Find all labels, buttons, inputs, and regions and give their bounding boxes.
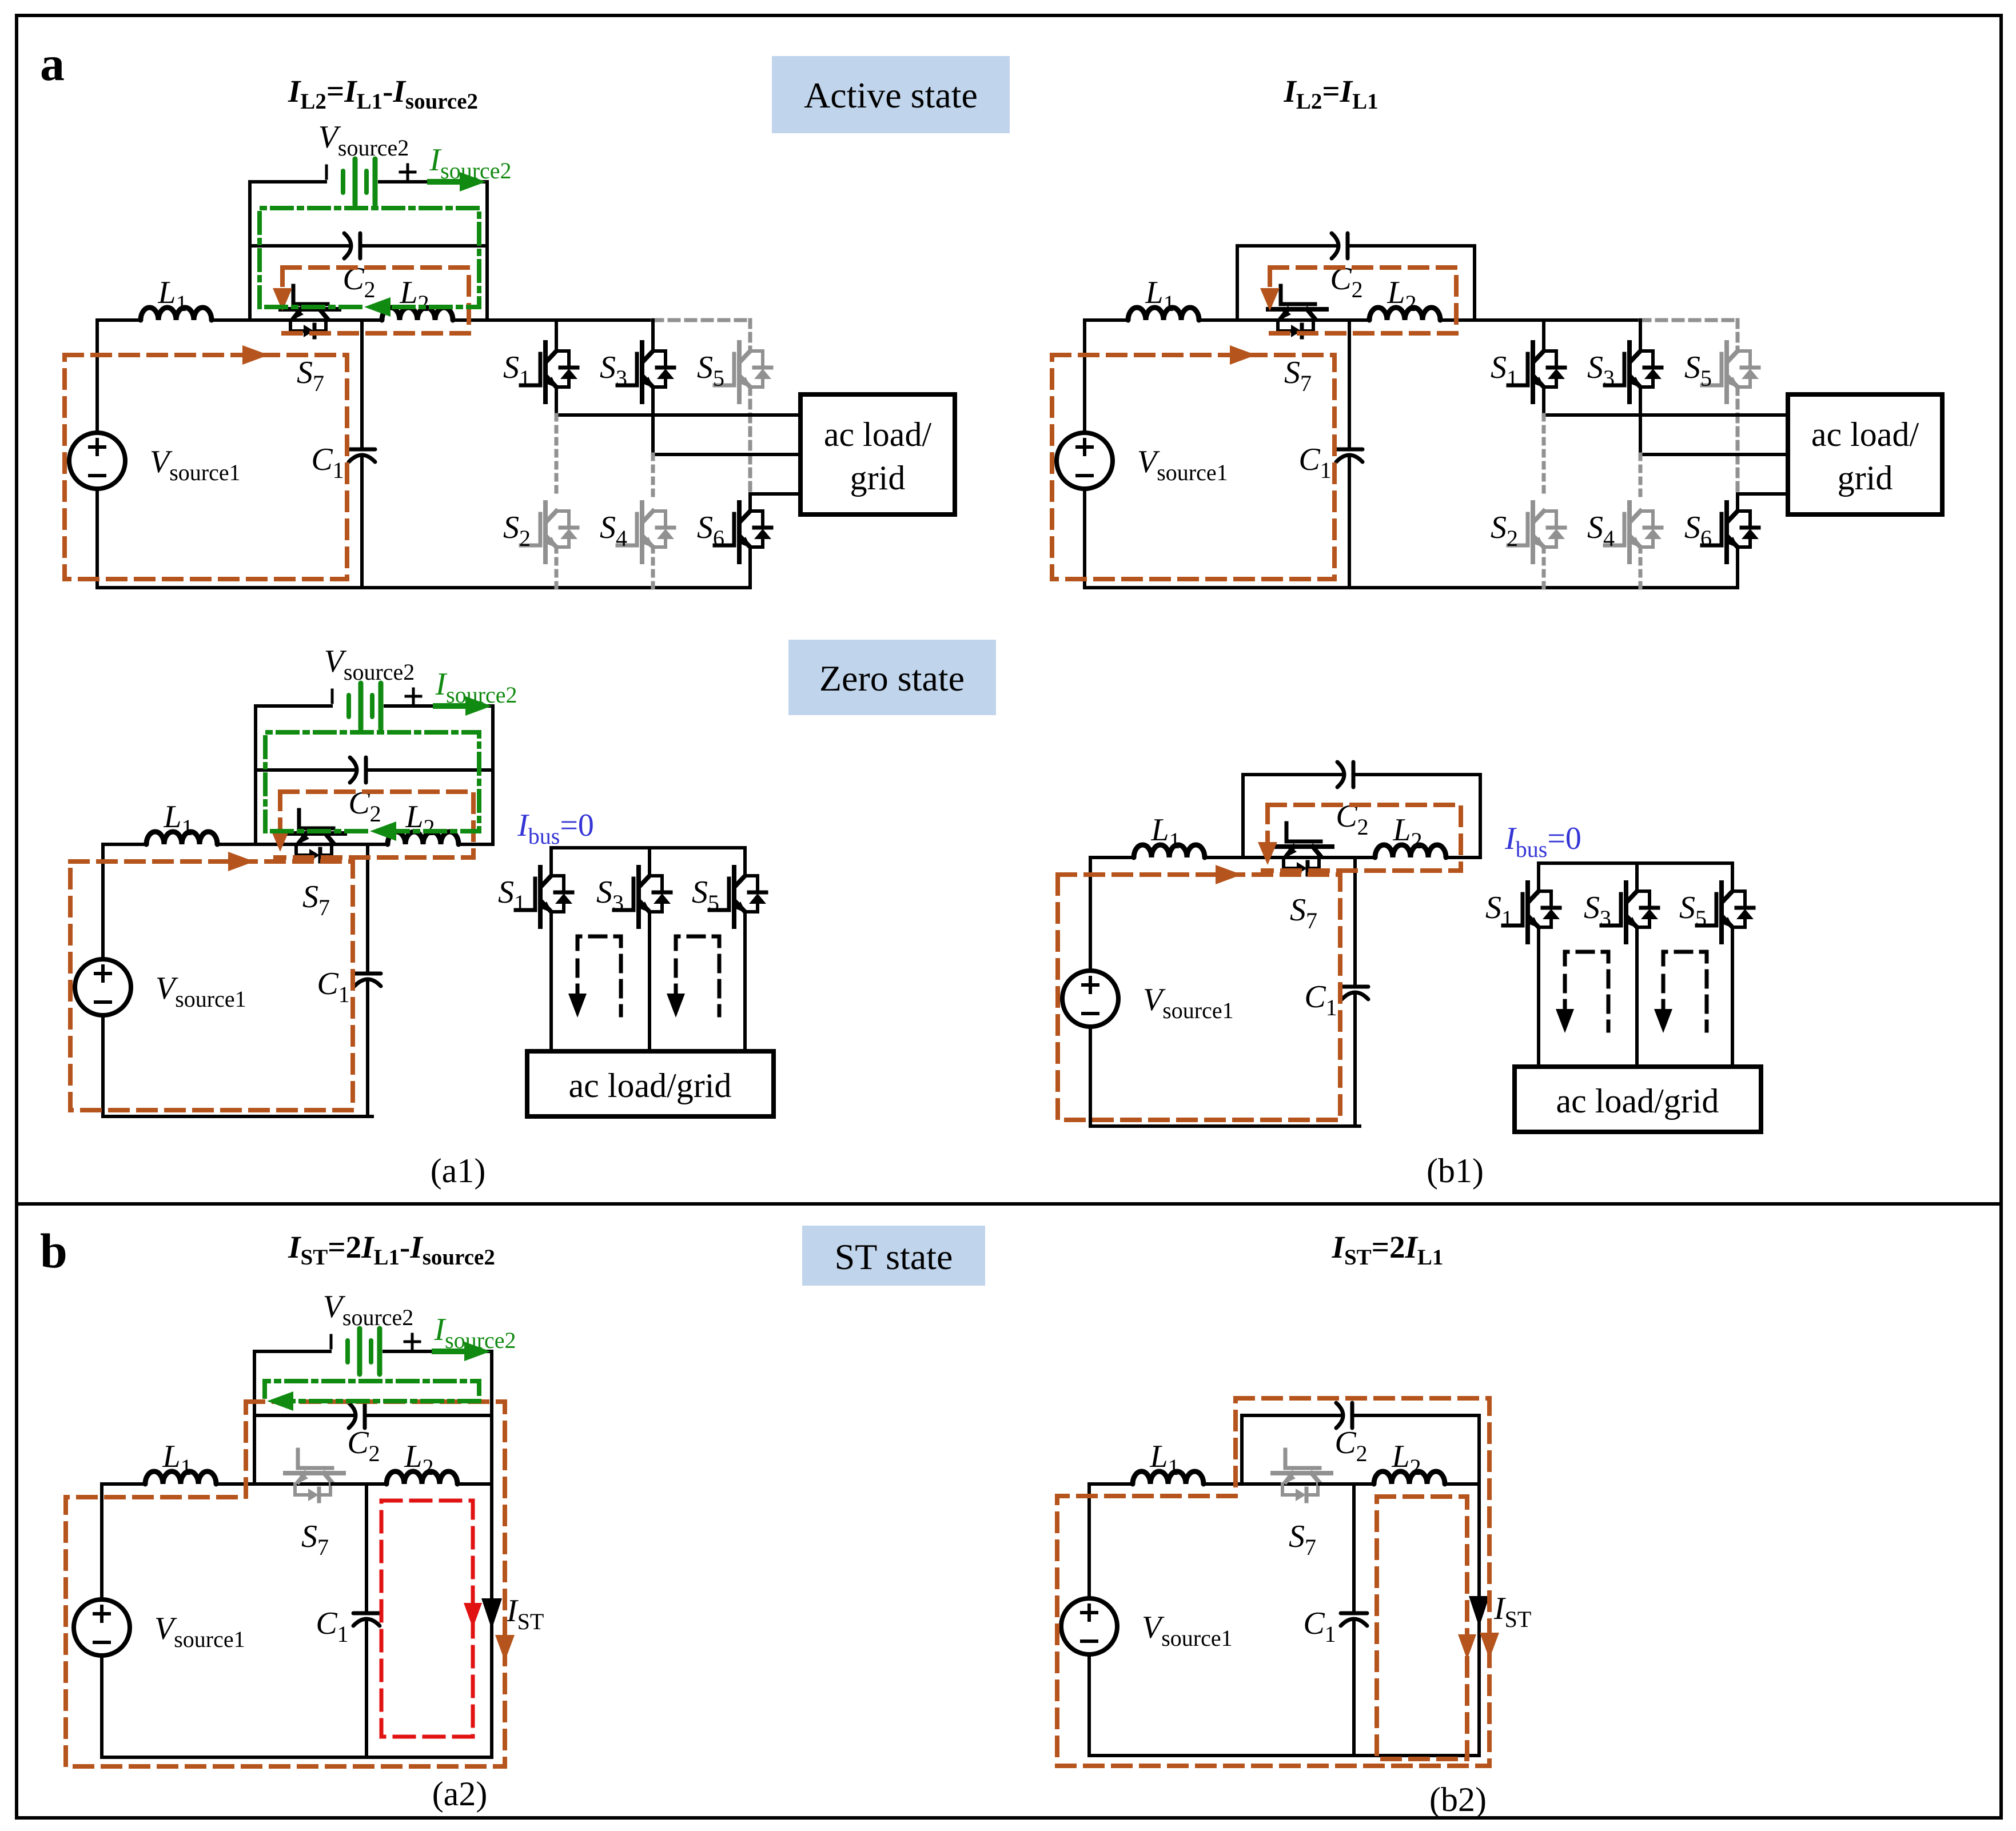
wire: right rail down to bottom xyxy=(490,1484,493,1757)
switch S4 emitter leg (grey dotted) xyxy=(1639,547,1643,588)
switch S5 collector leg (grey dashed) xyxy=(1736,320,1740,351)
inductor L2 xyxy=(382,308,453,320)
switch S4 emitter leg (grey dotted) xyxy=(651,547,655,588)
switch S5 emitter leg xyxy=(743,912,747,1051)
wire: C2 line right part xyxy=(1354,1414,1479,1417)
wire: top rail from source to L1 xyxy=(1090,856,1134,859)
wire: left rail lower xyxy=(1083,489,1086,588)
brown loop arrow xyxy=(228,852,254,871)
switch S4 collector leg (grey dotted) xyxy=(651,454,655,495)
switch S5 collector leg xyxy=(1731,863,1734,891)
wire: battery top right xyxy=(385,704,493,708)
inductor L1 xyxy=(1128,308,1199,320)
IGBT S4 (grey) xyxy=(1605,502,1662,562)
capacitor C1 xyxy=(354,972,381,976)
svg-text:L2: L2 xyxy=(1391,1439,1421,1480)
svg-text:Active state: Active state xyxy=(804,75,978,115)
IGBT S4 (grey) xyxy=(617,502,674,562)
svg-text:Vsource1: Vsource1 xyxy=(1137,444,1228,485)
brown loop down arrow (outer) xyxy=(1480,1633,1499,1659)
ac load/grid box xyxy=(527,1051,774,1116)
svg-text:Vsource1: Vsource1 xyxy=(156,971,246,1012)
svg-text:S5: S5 xyxy=(697,350,724,391)
wire: battery top right xyxy=(384,1350,492,1353)
brown loop (V_source1 charge path) xyxy=(65,355,347,579)
wire: S7 to C1 node and L2 xyxy=(333,843,388,846)
svg-text:S3: S3 xyxy=(596,875,624,916)
svg-text:L1: L1 xyxy=(1149,1439,1179,1480)
capacitor C2 branch: left vertical xyxy=(1241,775,1245,857)
wire: C2 line right part xyxy=(1356,773,1480,776)
transistor S7 xyxy=(1273,1450,1331,1501)
switch S1 collector leg xyxy=(555,320,558,351)
capacitor C1 branch upper wire xyxy=(1352,1484,1356,1611)
switch S6 collector leg xyxy=(1736,494,1739,511)
IGBT S3 xyxy=(617,342,674,402)
svg-text:C1: C1 xyxy=(317,966,349,1007)
wire: left rail upper xyxy=(101,844,105,959)
switch S2 emitter leg (grey dotted) xyxy=(555,547,559,588)
battery V_source2: top rect left vertical xyxy=(253,1351,256,1415)
transistor S7 xyxy=(1268,286,1326,337)
inductor L1 xyxy=(141,308,212,320)
svg-text:Vsource1: Vsource1 xyxy=(150,444,241,485)
freewheeling dashed loop 1 xyxy=(577,936,621,1015)
wire: bottom rail xyxy=(1089,1754,1479,1757)
svg-text:grid: grid xyxy=(850,459,906,497)
wire: grey dashed top bus S3-S5 xyxy=(1640,318,1738,322)
capacitor C2 xyxy=(1332,233,1338,258)
freewheeling dashed loop 2 xyxy=(676,936,719,1015)
brown small loop around C2 xyxy=(1265,268,1456,333)
wire: C2 line right part xyxy=(368,768,493,772)
inductor L1 xyxy=(145,1471,216,1484)
IGBT S6 xyxy=(1702,502,1759,562)
inductor L1 xyxy=(1133,1471,1204,1484)
switch S3 collector leg xyxy=(1639,320,1642,351)
switch S5 emitter leg (grey dashed) xyxy=(748,387,752,494)
capacitor C2 branch: left vertical xyxy=(1236,246,1239,320)
wire: S7 to C1 node and L2 xyxy=(328,318,382,322)
svg-text:S1: S1 xyxy=(503,350,531,391)
switch S3 emitter leg xyxy=(1635,927,1639,1067)
wire: S7 to C1 node and L2 xyxy=(1315,318,1369,322)
svg-text:S6: S6 xyxy=(697,510,724,551)
brown inner loop (shoot-through path) xyxy=(1377,1497,1467,1759)
capacitor C1 branch lower wire xyxy=(366,982,369,1116)
svg-text:S3: S3 xyxy=(1587,350,1615,391)
brown small loop around C2/S7 xyxy=(276,792,473,857)
phase C wire xyxy=(750,492,800,496)
header Zero state xyxy=(788,640,996,715)
capacitor C2 branch: right vertical xyxy=(485,246,489,320)
red loop arrow xyxy=(464,1603,482,1628)
svg-text:S1: S1 xyxy=(1485,890,1513,931)
svg-text:C2: C2 xyxy=(347,1425,380,1466)
switch S5 collector leg (grey dashed) xyxy=(748,320,752,351)
capacitor C2 branch: right vertical xyxy=(490,1415,493,1484)
switch S2 collector leg (grey dotted) xyxy=(1542,415,1546,495)
capacitor C2 branch: right vertical xyxy=(1477,1415,1481,1484)
svg-text:C1: C1 xyxy=(1303,1606,1336,1647)
green loop (V_source2 path) xyxy=(265,1381,479,1397)
wire: left rail lower xyxy=(101,1015,105,1116)
wire: L1 to S7 xyxy=(1204,1482,1320,1486)
battery V_source2: top rect right vertical xyxy=(490,1351,493,1415)
capacitor C2 branch: left vertical xyxy=(248,246,252,320)
battery V_source2 (green cells) xyxy=(346,695,351,717)
wire: L1 to S7 xyxy=(216,1482,332,1486)
switch S1 emitter leg xyxy=(549,912,553,1051)
IGBT S2 (grey) xyxy=(1508,502,1565,562)
svg-text:S7: S7 xyxy=(302,879,330,920)
switch S3 collector leg xyxy=(648,848,651,876)
svg-text:(b1): (b1) xyxy=(1427,1152,1484,1190)
IGBT S5 xyxy=(1697,883,1754,942)
svg-text:S5: S5 xyxy=(1684,350,1712,391)
inductor L2 xyxy=(1375,845,1446,857)
switch S4 collector leg (grey dotted) xyxy=(1639,454,1643,495)
switch S2 emitter leg (grey dotted) xyxy=(1542,547,1546,588)
switch S1 emitter leg xyxy=(1542,387,1545,415)
transistor S7 xyxy=(281,286,339,337)
wire: C2 line left part xyxy=(256,768,354,772)
svg-text:ac load/: ac load/ xyxy=(824,416,932,453)
IGBT S2 (grey) xyxy=(521,502,577,562)
wire: left rail lower xyxy=(100,1656,103,1757)
switch S1 collector leg xyxy=(1542,320,1545,351)
wire: S7 to C1 node and L2 xyxy=(332,1482,387,1486)
battery minus terminal mark xyxy=(331,690,334,703)
svg-text:Zero state: Zero state xyxy=(819,658,965,699)
black arrow I_ST xyxy=(481,1598,502,1629)
brown loop (outer ST path) xyxy=(66,1402,505,1766)
green arrow I_source2 xyxy=(435,1349,464,1354)
brown small loop around C2/S7 xyxy=(1263,805,1461,871)
svg-text:L2: L2 xyxy=(405,799,435,840)
svg-text:L2: L2 xyxy=(1392,812,1422,853)
capacitor C1 branch upper wire xyxy=(365,1484,368,1611)
battery plus terminal mark xyxy=(400,171,415,174)
capacitor C1 branch lower wire xyxy=(1353,995,1357,1126)
switch S1 emitter leg xyxy=(555,387,558,415)
capacitor C1 xyxy=(349,448,375,452)
green arrow I_source2 xyxy=(430,179,460,185)
svg-text:S1: S1 xyxy=(1491,350,1518,391)
phase A wire xyxy=(1544,413,1788,417)
wire: L2 to right corner xyxy=(1445,1482,1479,1486)
capacitor C1 branch upper wire xyxy=(1353,857,1357,984)
wire: top rail from source to L1 xyxy=(97,318,141,322)
wire: top bus to bridge xyxy=(487,318,653,322)
svg-text:S4: S4 xyxy=(1587,510,1615,551)
wire: left rail upper xyxy=(95,320,99,433)
battery V_source2 (green cells) xyxy=(345,1341,350,1362)
svg-text:C1: C1 xyxy=(1298,442,1331,483)
svg-text:L1: L1 xyxy=(1145,275,1174,316)
svg-text:a: a xyxy=(40,36,65,91)
svg-text:C1: C1 xyxy=(311,442,344,483)
svg-text:IST=2IL1-Isource2: IST=2IL1-Isource2 xyxy=(288,1230,495,1270)
wire: right rail down to bottom xyxy=(1477,1484,1481,1756)
transistor S7 xyxy=(286,810,345,861)
wire: C2 line left part xyxy=(254,1414,353,1417)
svg-text:IST: IST xyxy=(506,1593,544,1634)
capacitor C1 xyxy=(1341,1611,1367,1615)
capacitor C2 branch: left vertical xyxy=(254,770,257,844)
switch S3 collector leg xyxy=(651,320,655,351)
svg-text:S5: S5 xyxy=(1679,890,1707,931)
capacitor C1 branch lower wire xyxy=(365,1621,368,1757)
svg-text:Vsource1: Vsource1 xyxy=(154,1611,245,1652)
svg-text:L2: L2 xyxy=(404,1439,433,1480)
brown loop (V_source1 path) xyxy=(70,861,353,1110)
IGBT S3 xyxy=(614,867,671,927)
capacitor C2 xyxy=(350,757,357,783)
ac load/grid box xyxy=(800,394,955,514)
phase B wire xyxy=(1640,453,1788,456)
battery V_source2: top rect right vertical xyxy=(491,706,495,770)
IGBT S5 (grey) xyxy=(715,342,771,402)
inductor L2 xyxy=(388,832,459,844)
svg-text:Ibus=0: Ibus=0 xyxy=(517,808,594,849)
wire: top rail from source to L1 xyxy=(102,1482,145,1486)
svg-text:(b2): (b2) xyxy=(1429,1781,1487,1818)
wire: L2 to right corner xyxy=(457,1482,492,1486)
svg-text:S7: S7 xyxy=(1284,355,1312,396)
svg-text:L1: L1 xyxy=(1150,812,1180,853)
outer frame section b xyxy=(17,1204,2001,1818)
wire: L1 to S7 xyxy=(1199,318,1315,322)
capacitor C2 xyxy=(344,233,351,258)
svg-text:(a2): (a2) xyxy=(432,1775,488,1813)
freewheeling dashed loop 2 xyxy=(1663,952,1707,1031)
battery plus terminal mark xyxy=(405,1341,420,1343)
svg-text:Vsource2: Vsource2 xyxy=(318,119,409,161)
capacitor C1 branch lower wire xyxy=(360,457,364,588)
inverter top bus xyxy=(551,846,745,849)
wire: L1 to S7 xyxy=(217,843,333,846)
svg-text:ac load/: ac load/ xyxy=(1811,416,1919,453)
IGBT S5 xyxy=(710,867,766,927)
svg-text:S2: S2 xyxy=(503,510,531,551)
IGBT S1 xyxy=(1503,883,1560,942)
wire: C2 line left part xyxy=(1237,244,1336,248)
wire: top rail from source to L1 xyxy=(1085,318,1128,322)
IGBT S6 xyxy=(715,502,771,562)
IGBT S3 xyxy=(1605,342,1662,402)
wire: L2 to right corner xyxy=(453,318,487,322)
svg-text:C2: C2 xyxy=(1334,1425,1367,1466)
IGBT S1 xyxy=(516,867,572,927)
svg-text:IL2=IL1: IL2=IL1 xyxy=(1283,74,1378,114)
switch S5 collector leg xyxy=(743,848,747,876)
brown loop arrow xyxy=(1216,865,1242,884)
capacitor C2 xyxy=(1336,1403,1343,1428)
battery V_source2: top rect left vertical xyxy=(254,706,257,770)
switch S6 emitter leg xyxy=(1736,547,1739,588)
inverter top bus xyxy=(1539,861,1732,865)
capacitor C1 xyxy=(1336,448,1362,452)
wire: left rail upper xyxy=(1083,320,1086,433)
svg-text:L1: L1 xyxy=(162,1439,192,1480)
svg-text:ST state: ST state xyxy=(835,1236,953,1277)
green loop (V_source2 path) xyxy=(265,732,479,831)
battery V_source2: top rect left vertical xyxy=(248,182,252,246)
capacitor C1 branch lower wire xyxy=(1348,457,1351,588)
svg-text:S4: S4 xyxy=(600,510,627,551)
wire: C2 line right part xyxy=(367,1414,492,1417)
wire: C2 line left part xyxy=(250,244,349,248)
wire: left rail lower xyxy=(95,489,99,588)
svg-text:L2: L2 xyxy=(1387,275,1416,316)
wire: C2 line left part xyxy=(1243,773,1342,776)
switch S1 collector leg xyxy=(549,848,553,876)
wire: bottom rail xyxy=(1085,586,1738,589)
phase B wire xyxy=(653,453,800,456)
wire: bottom rail xyxy=(103,1115,372,1118)
wire: battery top left xyxy=(254,1350,330,1353)
brown small loop left arrow xyxy=(1265,805,1270,845)
battery minus terminal mark xyxy=(325,166,328,178)
wire: L1 to S7 xyxy=(1205,856,1321,859)
capacitor C2 xyxy=(349,1403,356,1428)
inductor L2 xyxy=(1369,308,1440,320)
IGBT S5 (grey) xyxy=(1702,342,1759,402)
capacitor C1 branch lower wire xyxy=(1352,1621,1356,1756)
svg-text:ac load/grid: ac load/grid xyxy=(1556,1082,1719,1120)
capacitor C2 branch: right vertical xyxy=(1473,246,1476,320)
svg-text:Vsource2: Vsource2 xyxy=(324,644,415,685)
wire: bottom rail xyxy=(102,1756,492,1759)
wire: left rail upper xyxy=(100,1484,103,1599)
brown small loop around C2/S7 xyxy=(278,268,469,333)
black arrow I_ST xyxy=(1469,1596,1489,1627)
wire: L1 to S7 xyxy=(212,318,328,322)
inductor L1 xyxy=(1134,845,1205,857)
svg-text:L1: L1 xyxy=(163,799,193,840)
wire: C2 line right part xyxy=(1350,244,1475,248)
svg-text:C1: C1 xyxy=(316,1606,348,1647)
battery minus terminal mark xyxy=(330,1335,333,1348)
switch S5 emitter leg (grey dashed) xyxy=(1736,387,1740,494)
svg-text:b: b xyxy=(40,1223,67,1278)
svg-text:C1: C1 xyxy=(1304,979,1337,1020)
svg-text:Vsource2: Vsource2 xyxy=(323,1289,414,1330)
wire: battery top left xyxy=(250,180,325,184)
svg-text:S7: S7 xyxy=(1289,1519,1316,1560)
IGBT S1 xyxy=(521,342,577,402)
capacitor C1 xyxy=(1342,985,1368,989)
battery V_source2 (green cells) xyxy=(341,171,345,193)
svg-text:Vsource1: Vsource1 xyxy=(1142,1610,1233,1651)
wire: top rail from source to L1 xyxy=(103,843,146,846)
capacitor C1 branch upper wire xyxy=(360,320,364,447)
svg-text:S1: S1 xyxy=(498,875,525,916)
brown inner loop arrow xyxy=(1458,1634,1476,1660)
switch S3 emitter leg xyxy=(1639,387,1642,454)
transistor S7 xyxy=(1274,823,1332,875)
brown small loop left arrow xyxy=(278,792,282,832)
switch S6 emitter leg xyxy=(748,547,752,588)
brown loop (V_source1 path) xyxy=(1058,875,1340,1120)
wire: bottom rail xyxy=(97,586,750,589)
brown loop down arrow xyxy=(495,1635,515,1661)
svg-text:Ibus=0: Ibus=0 xyxy=(1504,821,1581,862)
IGBT S1 xyxy=(1508,342,1565,402)
brown loop arrow xyxy=(242,345,269,365)
IGBT S3 xyxy=(1601,883,1658,942)
switch S6 collector leg xyxy=(748,494,752,511)
wire: top rail from source to L1 xyxy=(1089,1482,1133,1486)
brown loop arrow xyxy=(1230,345,1256,365)
svg-text:Vsource1: Vsource1 xyxy=(1143,982,1234,1023)
capacitor C2 branch: right vertical xyxy=(1479,775,1482,857)
svg-text:S5: S5 xyxy=(692,875,719,916)
svg-text:S7: S7 xyxy=(1290,892,1317,934)
phase A wire xyxy=(556,413,800,417)
inductor L2 xyxy=(387,1471,457,1484)
capacitor C2 branch: right vertical xyxy=(491,770,495,844)
wire: battery top left xyxy=(256,704,331,708)
wire: L2 to right corner xyxy=(1446,856,1480,859)
brown small loop left arrow xyxy=(280,268,285,295)
red loop (shoot-through path) xyxy=(381,1501,473,1737)
wire: C2 line left part xyxy=(1242,1414,1341,1417)
switch S3 emitter leg xyxy=(651,387,655,454)
svg-text:IST=2IL1: IST=2IL1 xyxy=(1332,1230,1444,1270)
svg-text:S7: S7 xyxy=(297,355,324,396)
brown small loop left arrow xyxy=(1268,268,1272,295)
switch S1 emitter leg xyxy=(1537,927,1540,1067)
wire: S7 to C1 node and L2 xyxy=(1320,1482,1374,1486)
wire: L2 to right corner xyxy=(1440,318,1475,322)
wire: S7 to C1 node and L2 xyxy=(1321,856,1375,859)
wire: left rail lower xyxy=(1089,1027,1092,1126)
phase C wire xyxy=(1738,492,1788,496)
header Active state xyxy=(772,56,1010,133)
svg-text:S2: S2 xyxy=(1491,510,1518,551)
svg-text:L2: L2 xyxy=(399,275,429,316)
capacitor C2 branch: left vertical xyxy=(1240,1415,1244,1484)
switch S3 emitter leg xyxy=(648,912,651,1051)
green loop (V_source2 path) xyxy=(260,208,479,307)
wire: left rail upper xyxy=(1089,857,1092,971)
svg-text:S6: S6 xyxy=(1684,510,1712,551)
svg-text:(a1): (a1) xyxy=(431,1152,486,1190)
switch S2 collector leg (grey dotted) xyxy=(555,415,559,495)
svg-text:S3: S3 xyxy=(600,350,627,391)
svg-text:grid: grid xyxy=(1838,459,1893,497)
ac load/grid box xyxy=(1788,394,1942,514)
ac load/grid box xyxy=(1515,1067,1761,1132)
battery V_source2: top rect right vertical xyxy=(485,182,489,246)
wire: L2 to right corner xyxy=(459,843,493,846)
svg-text:IL2=IL1-Isource2: IL2=IL1-Isource2 xyxy=(288,74,478,114)
green loop arrow xyxy=(370,821,396,841)
inductor L2 xyxy=(1374,1471,1445,1484)
wire: battery top right xyxy=(380,180,487,184)
outer frame section a xyxy=(17,15,2001,1204)
capacitor C1 branch upper wire xyxy=(1348,320,1351,447)
header ST state xyxy=(802,1226,985,1286)
svg-text:L1: L1 xyxy=(157,275,187,316)
capacitor C2 xyxy=(1337,762,1344,787)
wire: bottom rail xyxy=(1090,1124,1360,1128)
transistor S7 xyxy=(285,1450,344,1501)
svg-text:S3: S3 xyxy=(1584,890,1611,931)
switch S3 collector leg xyxy=(1635,863,1639,891)
